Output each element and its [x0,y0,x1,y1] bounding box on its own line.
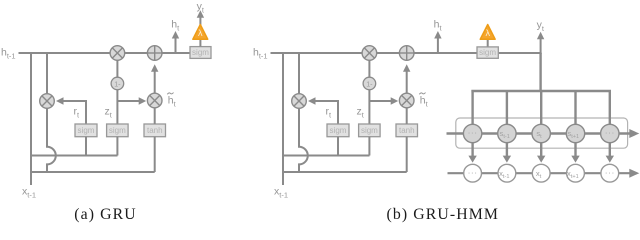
node y_t label (a) [197,0,205,14]
HMM observation circle x2 [498,164,516,182]
HMM state circle s1 [463,124,481,142]
svg-text:xt-1: xt-1 [274,185,288,199]
svg-text:ht: ht [420,95,429,109]
svg-text:tanh: tanh [147,126,163,135]
HMM observation circle x1 [464,164,482,182]
HMM state circle s5 [601,124,619,142]
wire tanh output (a) [154,108,156,124]
node r_t label (a) [74,105,81,119]
HMM state circle s2 [498,124,516,142]
svg-text:rt: rt [74,105,81,119]
node x_t-1 input label (b) [274,185,288,199]
HMM observation circle x3 [532,164,550,182]
node z_t label (a) [105,105,113,119]
multiplier (update gate apply) (b) [399,93,414,108]
svg-text:···: ··· [468,128,478,138]
node y_t label (b) [537,19,545,33]
lambda warning triangle (b) [480,25,495,40]
svg-text:sigm: sigm [109,126,126,135]
svg-text:yt: yt [197,0,205,14]
svg-text:λ: λ [485,28,490,38]
wire gate input bus (a) [30,155,118,157]
wire h branch down to reset gate (a) [46,52,48,95]
svg-text:ht: ht [434,19,443,33]
wire z_t vertical (a) [116,90,118,125]
wire sigm update input (a) [116,137,118,156]
HMM observation circle x4 [567,164,585,182]
wire bar to state s1 [471,90,473,125]
svg-text:···: ··· [468,167,478,177]
node r_t label (b) [326,105,333,119]
svg-text:···: ··· [605,128,615,138]
wire emission arrow s2 to x2 [503,143,511,163]
wire bar to state s3 [540,90,542,125]
sigm box update gate (a) [107,124,129,137]
wire tanh input (a) [154,137,156,172]
wire emission arrow s4 to x4 [571,143,579,163]
wire sigm reset input (b) [337,137,339,156]
adder circle (a) [147,46,162,61]
svg-text:xt-1: xt-1 [22,185,36,199]
sigm box output (a) [190,47,211,59]
wire y_t output arrow (a) [197,10,204,46]
wire emission arrow s3 to x3 [537,143,545,163]
HMM observation circle x5 [601,164,619,182]
wire candidate to adder arrow (a) [151,64,158,93]
wire sigm reset input (a) [85,137,87,156]
node h_t label (a) [171,19,180,33]
wire HMM state chain with arrow [447,129,640,138]
svg-text:λ: λ [198,28,203,38]
svg-text:ht-1: ht-1 [1,46,16,60]
wire y_t output arrow (b) [537,32,544,54]
wire tanh output (b) [406,108,408,124]
adder circle (b) [399,46,414,61]
wire z_t to multiplier arrow (b) [369,97,398,104]
wire bar to state s2 [506,90,508,125]
wire r*h with hop over gate bus (b) [299,108,308,172]
svg-text:rt: rt [326,105,333,119]
svg-text:sigm: sigm [330,126,347,135]
svg-text:sigm: sigm [479,48,496,57]
sigm box update gate (b) [359,124,381,137]
svg-text:yt: yt [537,19,545,33]
wire z_t vertical (b) [368,90,370,125]
svg-text:(b) GRU-HMM: (b) GRU-HMM [387,206,500,223]
svg-text:sigm: sigm [361,126,378,135]
multiplier ((1-z)*h) (a) [110,46,125,61]
svg-text:ht: ht [168,95,177,109]
svg-text:sigm: sigm [192,48,209,57]
tanh box candidate (a) [144,124,166,137]
wire candidate input bus (b) [282,171,407,173]
wire bar to state s4 [574,90,576,125]
wire x_t-1 vertical trunk (a) [30,52,32,185]
multiplier ((1-z)*h) (b) [362,46,377,61]
wire emission arrow s1 to x1 [468,143,476,163]
svg-text:ht: ht [171,19,180,33]
wire h_t output arrow (b) [434,31,441,53]
node h_t label (b) [434,19,443,33]
wire r_t from sigm to multiplier (a) [56,97,86,124]
wire r_t from sigm to multiplier (b) [308,97,338,124]
HMM plate rounded rectangle [456,118,628,148]
node z_t label (b) [357,105,365,119]
wire z_t to multiplier arrow (a) [117,97,146,104]
tanh box candidate (b) [396,124,418,137]
svg-text:sigm: sigm [78,126,95,135]
svg-text:···: ··· [605,167,615,177]
wire adder to sigm box (b) [442,52,478,54]
svg-text:1-: 1- [366,79,373,88]
caption (a) GRU [74,206,137,223]
HMM distribution bar [471,90,611,92]
wire h_t-1 main horizontal (b) [271,52,443,54]
wire h_t-1 main horizontal (a) [19,52,191,54]
svg-text:zt: zt [357,105,365,119]
node h-tilde label (a) [167,93,176,109]
multiplier (reset gate apply) (b) [292,94,307,109]
svg-text:tanh: tanh [399,126,415,135]
wire h_t output arrow (a) [172,31,179,53]
one-minus circle (a) [111,77,124,90]
svg-text:ht-1: ht-1 [253,46,268,60]
one-minus circle (b) [363,77,376,90]
node h_t-1 input label (b) [253,46,268,60]
svg-text:zt: zt [105,105,113,119]
HMM state circle s4 [566,124,584,142]
caption (b) GRU-HMM [387,206,500,223]
wire gate input bus (b) [282,155,370,157]
HMM state circle s3 [532,124,550,142]
wire z to one-minus (a) [116,60,118,78]
node h-tilde label (b) [419,93,428,109]
lambda warning triangle (a) [193,25,208,40]
svg-text:1-: 1- [114,79,121,88]
wire x_t-1 vertical trunk (b) [282,52,284,185]
wire sigm update input (b) [368,137,370,156]
sigm box output (b) [477,47,498,58]
wire y_t junction down to HMM bar (b) [539,53,541,92]
sigm box reset gate (b) [327,124,349,137]
wire HMM observation chain with arrow [448,169,640,178]
svg-text:(a) GRU: (a) GRU [74,206,137,223]
wire candidate to adder arrow (b) [403,64,410,93]
wire z to one-minus (b) [368,60,370,78]
wire candidate input bus (a) [30,171,155,173]
wire bar to state s5 [609,90,611,125]
wire emission arrow s5 to x5 [606,143,614,163]
sigm box reset gate (a) [75,124,97,137]
node h_t-1 input label (a) [1,46,16,60]
multiplier (reset gate apply) (a) [40,94,55,109]
wire r*h with hop over gate bus (a) [47,108,56,172]
wire h branch down to reset gate (b) [298,52,300,95]
wire tanh input (b) [406,137,408,172]
multiplier (update gate apply) (a) [147,93,162,108]
wire sigm output to y_t junction (b) [488,39,542,53]
node x_t-1 input label (a) [22,185,36,199]
